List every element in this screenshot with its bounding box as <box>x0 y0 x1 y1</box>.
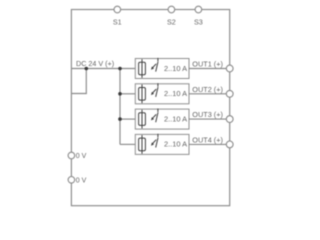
wire: output channel 4 <box>189 143 230 145</box>
junction bus / channel 3 <box>118 117 122 121</box>
svg-text:0 V: 0 V <box>76 153 87 160</box>
switch contact channel 4 <box>157 134 159 138</box>
svg-text:S3: S3 <box>194 18 203 27</box>
fuse F1 <box>139 62 146 75</box>
switch contact channel 3 <box>157 109 159 113</box>
wire: feed stub channel 2 <box>120 93 135 95</box>
svg-text:2..10 A: 2..10 A <box>164 140 187 149</box>
svg-text:2..10 A: 2..10 A <box>164 114 187 123</box>
switch contact channel 1 <box>157 58 159 62</box>
terminal S2 <box>168 6 175 13</box>
svg-text:OUT1 (+): OUT1 (+) <box>192 60 223 69</box>
terminal OUT2 <box>226 90 233 97</box>
junction at input rail / bus <box>118 67 122 71</box>
terminal 0 V (upper) <box>68 152 75 159</box>
circuit breaker channel 3 box <box>135 109 189 130</box>
svg-text:2..10 A: 2..10 A <box>164 64 187 73</box>
svg-text:DC 24 V (+): DC 24 V (+) <box>76 59 114 68</box>
fuse F2 <box>139 88 146 101</box>
circuit breaker channel 4 box <box>135 134 189 155</box>
terminal OUT3 <box>226 116 233 123</box>
terminal OUT1 <box>226 65 233 72</box>
fuse F3 <box>139 113 146 126</box>
fuse F4 <box>139 138 146 151</box>
terminal 0 V (lower) <box>68 177 75 184</box>
wire: distribution bus <box>119 69 121 145</box>
circuit breaker channel 1 box <box>135 58 189 79</box>
wire: feed stub channel 4 <box>120 143 135 145</box>
terminal S3 <box>195 6 202 13</box>
circuit breaker channel 2 box <box>135 83 189 104</box>
terminal S1 <box>114 6 121 13</box>
svg-text:S2: S2 <box>167 18 176 27</box>
svg-text:0 V: 0 V <box>76 177 87 184</box>
svg-text:S1: S1 <box>113 18 122 27</box>
junction at input rail / branch <box>85 67 89 71</box>
svg-text:OUT2 (+): OUT2 (+) <box>192 85 223 94</box>
switch contact channel 2 <box>157 83 159 87</box>
wire: feed stub channel 3 <box>120 118 135 120</box>
svg-text:OUT3 (+): OUT3 (+) <box>192 110 223 119</box>
enclosure outline <box>71 10 229 206</box>
svg-text:2..10 A: 2..10 A <box>164 89 187 98</box>
wire: DC 24 V (+) input rail <box>71 68 135 70</box>
junction bus / channel 2 <box>118 92 122 96</box>
svg-text:OUT4 (+): OUT4 (+) <box>192 135 223 144</box>
wire: input branch to left edge <box>71 69 86 94</box>
wire: output channel 1 <box>189 68 230 70</box>
wire: output channel 3 <box>189 118 230 120</box>
wire: output channel 2 <box>189 93 230 95</box>
terminal OUT4 <box>226 141 233 148</box>
